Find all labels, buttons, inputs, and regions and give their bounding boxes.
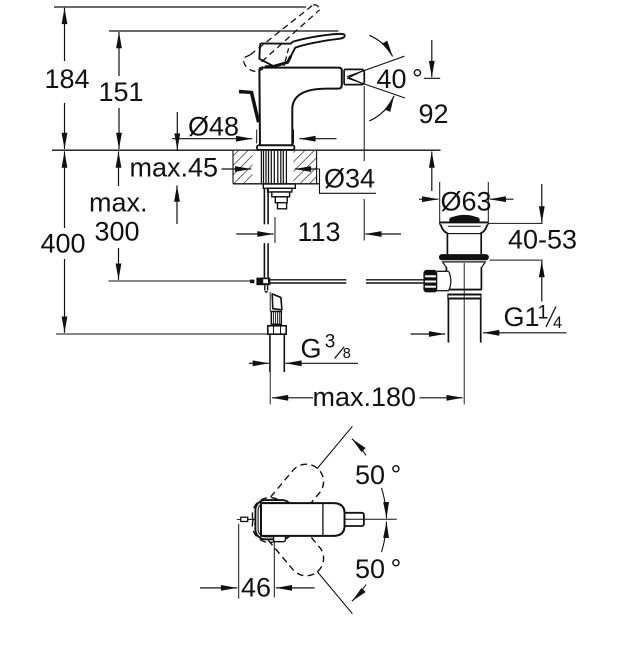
dim 113 arrows <box>236 233 273 235</box>
dim G114 leader+arrow <box>483 332 567 334</box>
rod coupling <box>256 278 270 286</box>
plan body joint line <box>322 504 324 536</box>
svg-text:max.45: max.45 <box>130 153 219 183</box>
spray ray upper <box>347 56 404 76</box>
svg-text:184: 184 <box>45 64 90 94</box>
dim 400 line+arrows <box>64 151 66 169</box>
valve centerline <box>463 263 465 405</box>
ref line max300 bottom (pull rod level) <box>109 280 251 282</box>
svg-text:G1: G1 <box>504 302 540 332</box>
dim max300 line+arrows <box>118 151 120 169</box>
pull rod lower <box>263 243 265 277</box>
plan bump <box>274 535 286 542</box>
svg-text:3: 3 <box>325 332 336 353</box>
dim max45 vertical arrows <box>176 112 178 150</box>
plan ray upper <box>317 426 352 468</box>
plan dashed handle pos1 <box>245 457 330 549</box>
dim 184 line+arrows <box>64 8 66 26</box>
valve body sides <box>445 267 447 271</box>
svg-text:8: 8 <box>343 346 351 362</box>
dim hole arrows (O34 leader) <box>222 168 252 170</box>
svg-text:92: 92 <box>419 99 449 129</box>
faucet body outline <box>259 68 341 146</box>
dim 40-53 arrows <box>541 184 543 223</box>
svg-text:400: 400 <box>41 229 86 259</box>
supply hose <box>272 294 282 310</box>
dim max180 extension from rod <box>269 292 271 312</box>
svg-text:Ø34: Ø34 <box>324 164 375 194</box>
valve top rim <box>440 221 489 223</box>
handle lever solid <box>259 34 344 66</box>
valve cylinder <box>446 234 448 255</box>
pull rod upper <box>263 188 265 224</box>
dim max180 arrows <box>272 397 313 399</box>
handle chin thick edge <box>265 56 291 67</box>
deck bottom edge <box>233 183 319 185</box>
valve knurled knob <box>423 270 437 293</box>
valve body bottom <box>449 289 482 291</box>
pop-up hook lever <box>239 90 259 122</box>
deck top surface line <box>52 149 441 151</box>
mounting steps <box>263 184 295 188</box>
dim 92 top tick <box>424 77 440 79</box>
aerator cone <box>349 70 364 84</box>
valve bell <box>441 226 448 234</box>
dim O63 arrows <box>419 198 438 200</box>
valve rim underside <box>448 225 481 227</box>
plan aerator stub <box>345 513 364 526</box>
hose nut <box>268 326 286 334</box>
svg-text:G: G <box>301 334 322 364</box>
dim O48 extension ticks <box>256 130 258 144</box>
valve tailpipe <box>447 300 449 343</box>
deck hatch right <box>293 151 316 184</box>
dim 151 line+arrows <box>118 32 120 51</box>
plan arc upper <box>352 439 366 456</box>
svg-text:50 °: 50 ° <box>355 554 401 584</box>
svg-text:151: 151 <box>99 77 144 107</box>
svg-text:40-53: 40-53 <box>508 225 577 255</box>
hose knurl connector <box>271 312 281 325</box>
valve flange lip <box>442 261 486 263</box>
svg-text:1: 1 <box>538 302 549 324</box>
plan rod bead <box>237 518 241 520</box>
dim 46 extensions <box>238 524 240 599</box>
threaded shank <box>260 151 262 184</box>
dim G114 left arrow <box>411 333 446 335</box>
faucet base plate <box>257 145 295 150</box>
svg-text:Ø48: Ø48 <box>188 112 239 142</box>
plan handle capsule <box>255 500 292 539</box>
valve side port <box>437 270 449 272</box>
svg-text:300: 300 <box>95 217 140 247</box>
svg-text:46: 46 <box>241 573 271 603</box>
svg-text:113: 113 <box>298 217 341 247</box>
ref line 400 bottom <box>56 333 268 335</box>
dim G38 arrows <box>249 362 269 364</box>
svg-text:Ø63: Ø63 <box>441 187 492 217</box>
dim 92 arrows <box>431 40 433 77</box>
plan ray lower <box>317 571 352 613</box>
dim 40-53 ref lines <box>489 222 543 224</box>
svg-text:max.: max. <box>89 188 148 218</box>
svg-text:40 °: 40 ° <box>377 64 423 94</box>
valve washer band <box>448 294 481 296</box>
arc 40 lower <box>369 96 394 121</box>
valve flange oring <box>439 254 489 260</box>
G3/8 pipe <box>269 334 271 372</box>
dim 113 extension (spout tip) <box>363 86 365 161</box>
dim 46 arrows <box>200 587 237 589</box>
svg-text:50 °: 50 ° <box>355 460 401 490</box>
ref line top (tip of raised lever) <box>54 6 306 8</box>
plan arc lower <box>382 522 387 553</box>
arc 40 upper <box>369 35 392 56</box>
aerator tip <box>344 69 364 84</box>
leader to O34 <box>317 169 377 193</box>
deck hatch borders <box>232 151 234 184</box>
valve neck joint <box>447 233 481 235</box>
dim 113 tick <box>274 217 276 243</box>
rod coupling stub <box>264 285 266 290</box>
handle raised dashed neck <box>284 48 289 66</box>
horizontal pop-up rod <box>270 279 346 281</box>
svg-text:4: 4 <box>553 314 562 332</box>
plan dashed handle pos2 <box>245 490 330 582</box>
svg-text:max.180: max.180 <box>313 382 417 412</box>
deck hatch left <box>233 151 253 184</box>
handle raised dashed line2 <box>262 10 320 62</box>
plan body <box>261 503 345 536</box>
spray ray lower <box>347 78 405 98</box>
dim O63 extensions <box>439 182 441 222</box>
handle raised dashed line1 <box>250 5 313 55</box>
plan centerline <box>346 518 397 520</box>
dim O48 arrows <box>172 138 252 140</box>
ref line lever tip <box>109 30 339 32</box>
valve cap <box>449 215 479 222</box>
handle raised dashed tip <box>313 5 319 10</box>
handle raised dashed base <box>244 55 263 72</box>
plan handle inner line <box>258 503 290 537</box>
